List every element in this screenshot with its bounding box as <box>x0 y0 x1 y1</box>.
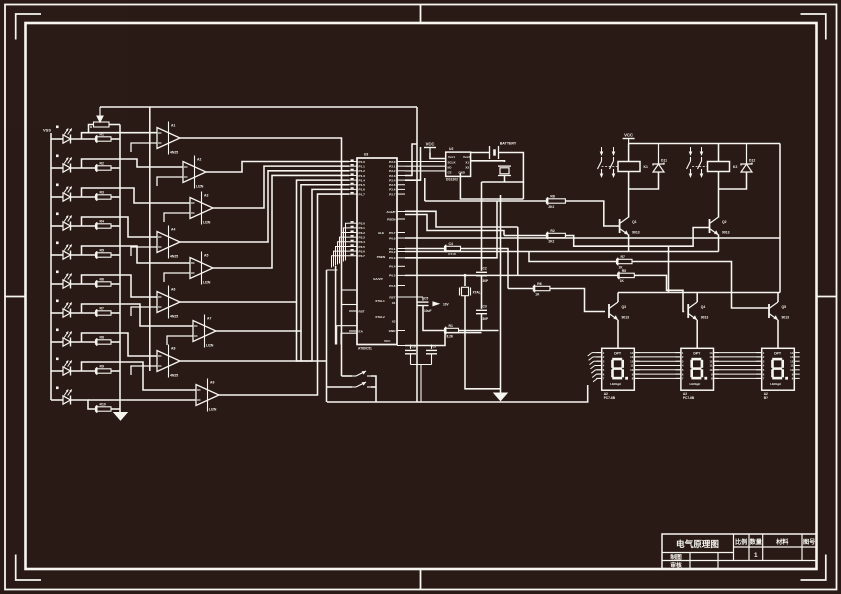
wire row 7 resistor to rail <box>111 312 120 314</box>
label row 1 <box>56 126 59 129</box>
svg-text:P2.6: P2.6 <box>389 188 396 192</box>
wire gnd drop <box>500 195 502 393</box>
svg-text:Vcc2: Vcc2 <box>463 155 470 159</box>
resistor C4 <box>445 242 461 252</box>
centering tick top <box>420 5 422 24</box>
wire gate A3 lower input <box>164 213 190 222</box>
svg-text:X2: X2 <box>392 319 396 323</box>
label row 2 <box>56 155 59 158</box>
svg-text:P3.1: P3.1 <box>359 226 366 230</box>
IC U3 right pin PSEN <box>397 218 405 220</box>
svg-text:LI2N: LI2N <box>206 344 214 348</box>
relay coil K1 <box>618 162 640 172</box>
svg-text:P2.7: P2.7 <box>389 192 396 196</box>
svg-text:P1.1: P1.1 <box>359 164 366 168</box>
corner mark top-right <box>801 14 826 40</box>
wire gate A1 lower input <box>131 143 157 152</box>
IC U3 microcontroller body <box>357 158 397 345</box>
LED D10 <box>63 389 72 404</box>
wire row 10 continue right <box>88 399 120 401</box>
svg-text:R5: R5 <box>100 248 104 252</box>
label row 4 <box>56 213 59 216</box>
svg-text:9013: 9013 <box>701 316 709 320</box>
svg-text:LI2N: LI2N <box>196 185 204 189</box>
wire tap row7 <box>82 304 194 326</box>
wire row 3 resistor to rail <box>111 196 120 198</box>
wire row10 to gate A9 lower input <box>120 399 196 401</box>
svg-text:XTAL1: XTAL1 <box>375 299 385 303</box>
wire tap row3 <box>82 188 191 203</box>
svg-text:数量: 数量 <box>750 538 763 546</box>
wire row 8 resistor to rail <box>111 341 120 343</box>
wire display bus 6 <box>634 373 681 375</box>
svg-text:VCC: VCC <box>426 142 435 147</box>
svg-text:P1.7: P1.7 <box>359 192 366 196</box>
wire row 10 resistor to rail <box>111 408 120 410</box>
wire gate A8 output to MCU <box>180 189 349 361</box>
wire cap common <box>411 364 432 366</box>
wire C4 to R6 riser <box>461 249 509 289</box>
resistor R8 <box>96 335 112 345</box>
wire row 1 to resistor <box>71 138 96 140</box>
LED D6 <box>63 273 72 288</box>
svg-text:VCC: VCC <box>384 339 391 343</box>
power symbol VCC <box>623 133 635 144</box>
corner mark bottom-left <box>16 555 41 581</box>
svg-text:P0.6: P0.6 <box>389 284 396 288</box>
LED D9 <box>63 360 72 375</box>
IC U3 left pins P1 <box>349 161 357 163</box>
wire gate A2 lower input <box>157 177 183 186</box>
title block line v2 <box>748 534 750 561</box>
svg-text:P1.5: P1.5 <box>359 183 366 187</box>
wire R8 feed riser <box>424 178 426 201</box>
wire VCC pin hook <box>405 333 482 346</box>
wire gate A7 output to MCU <box>216 185 349 331</box>
svg-text:P1.3: P1.3 <box>359 174 366 178</box>
wire top feed to resistor ladder <box>100 106 417 108</box>
svg-text:比例: 比例 <box>735 538 747 546</box>
svg-text:C2: C2 <box>483 267 487 271</box>
wire row 5 resistor to rail <box>111 254 120 256</box>
svg-text:9013: 9013 <box>722 231 730 235</box>
svg-text:P0.4: P0.4 <box>389 265 396 269</box>
wire LED row 6 <box>51 283 63 285</box>
wire MCU pin hookup y290 <box>342 289 357 291</box>
wire resistor R0 branch <box>89 125 94 133</box>
wire R2 net <box>504 235 546 237</box>
LED D8 <box>63 331 72 346</box>
wire staircase collector <box>327 269 338 271</box>
svg-text:P3.2: P3.2 <box>359 231 366 235</box>
resistor R2 <box>546 229 565 243</box>
LED D5 <box>63 244 72 259</box>
svg-text:制图: 制图 <box>670 553 682 561</box>
switch S2 <box>352 382 371 387</box>
svg-text:审核: 审核 <box>670 561 682 569</box>
wire emitter rail <box>405 251 719 253</box>
svg-text:VCC: VCC <box>624 133 633 138</box>
svg-text:10V: 10V <box>443 303 450 307</box>
wire tap row2 <box>82 159 184 168</box>
resistor R7 <box>96 306 112 316</box>
wire battery riser <box>460 173 523 199</box>
wire R8 net <box>425 200 547 202</box>
svg-text:D11: D11 <box>661 159 667 163</box>
svg-text:A5: A5 <box>204 254 208 258</box>
wire VCC rail drop right <box>779 144 781 293</box>
svg-text:GND: GND <box>389 329 397 333</box>
svg-text:BATTERY: BATTERY <box>500 142 517 146</box>
svg-text:R6: R6 <box>100 277 104 281</box>
crystal Y2 <box>498 166 511 175</box>
wire R7 to Q5 base <box>632 262 769 309</box>
wire display bus 1 <box>634 352 681 354</box>
wire row 6 to resistor <box>71 283 96 285</box>
svg-text:C3: C3 <box>483 305 487 309</box>
ground <box>114 413 127 421</box>
wire RST pin net <box>405 296 423 298</box>
svg-text:LEDigit: LEDigit <box>610 382 621 386</box>
svg-text:PC7-6B: PC7-6B <box>604 396 616 400</box>
svg-text:GND: GND <box>458 171 466 175</box>
wire C3 lower <box>481 314 483 331</box>
svg-text:PC7-6B: PC7-6B <box>683 396 695 400</box>
wire gate A6 lower input <box>131 307 157 316</box>
op-amp buffer A5 <box>190 252 213 285</box>
svg-text:A6: A6 <box>171 288 175 292</box>
wire cap branch vertical <box>481 182 483 271</box>
relay contact <box>598 147 604 178</box>
crystal Y1 <box>460 287 481 295</box>
wire R0 to rail <box>109 124 120 126</box>
svg-text:Q5: Q5 <box>782 305 787 309</box>
LED D2 <box>63 157 72 172</box>
wire gate A4 output to MCU <box>180 171 349 242</box>
wire R8 to Q1 base <box>565 201 619 226</box>
svg-text:R2: R2 <box>550 229 554 233</box>
power symbol VCC <box>424 142 436 153</box>
crystal Y1 branch <box>464 275 466 286</box>
svg-text:CE: CE <box>448 171 452 175</box>
wire DS1302 X1 to crystal <box>471 161 505 162</box>
resistor R6 <box>533 282 550 296</box>
wire row 4 to resistor <box>71 225 96 227</box>
wire C2 lower <box>481 276 483 309</box>
op-amp buffer A2 <box>183 156 206 189</box>
svg-text:Q3: Q3 <box>622 305 627 309</box>
svg-text:A9: A9 <box>210 381 214 385</box>
svg-text:4N25: 4N25 <box>170 151 178 155</box>
svg-text:DPY: DPY <box>614 351 622 355</box>
wire Q5 emitter to display <box>777 320 779 348</box>
wire LED row 1 <box>51 138 63 140</box>
title block line h3 <box>662 560 817 562</box>
svg-text:B?: B? <box>764 396 768 400</box>
transistor Q5 <box>769 302 789 320</box>
centering tick right <box>817 296 837 298</box>
op-amp buffer A9 <box>196 379 219 412</box>
wire XTAL1 cap <box>410 345 412 349</box>
svg-text:2K2: 2K2 <box>548 239 554 243</box>
svg-text:P2.4: P2.4 <box>389 178 396 182</box>
wire ground bus bottom <box>327 385 588 402</box>
svg-text:8.2K: 8.2K <box>447 334 454 338</box>
wire MCU pin hookup y333 <box>341 333 357 344</box>
wire Q3 emitter to display <box>617 320 619 348</box>
relay K2 link dashes <box>692 166 708 168</box>
svg-text:P3.6: P3.6 <box>359 249 366 253</box>
resistor R6 <box>96 277 112 287</box>
wire display bus 5 <box>634 369 681 371</box>
wire fan drop join <box>297 302 328 361</box>
svg-text:1K: 1K <box>620 279 625 283</box>
svg-text:I/O: I/O <box>448 166 453 170</box>
wire XTAL2 cap <box>431 345 433 349</box>
resistor R7 <box>617 255 633 269</box>
wire relay VCC rail <box>629 143 780 145</box>
resistor R0 top tap <box>94 122 110 127</box>
svg-text:D12: D12 <box>749 159 755 163</box>
diode D12 <box>741 144 755 174</box>
svg-text:CY-R: CY-R <box>448 252 456 256</box>
IC U3 left pin RST <box>349 310 357 312</box>
wire D12 to coil bottom <box>719 172 747 189</box>
wire LED row 2 <box>51 167 63 169</box>
wire cap common drop <box>420 365 422 403</box>
op-amp buffer A1 <box>157 122 180 155</box>
diode D11 <box>653 144 667 174</box>
resistor R10 <box>96 402 112 412</box>
wire DS1302 CE to MCU <box>405 170 446 172</box>
wire display bus 7 <box>634 377 681 379</box>
svg-text:Q2: Q2 <box>722 220 727 224</box>
svg-text:P1.4: P1.4 <box>359 178 366 182</box>
LED D1 <box>63 128 72 143</box>
svg-text:30P: 30P <box>483 317 490 321</box>
wire R5 to Q4 base <box>634 275 684 311</box>
svg-text:RST: RST <box>389 295 395 299</box>
resistor R5 <box>618 269 635 283</box>
wire K1 region drop <box>668 246 670 292</box>
wire MCU pin hookup y325 <box>337 326 357 345</box>
7-segment display DPY <box>756 348 800 400</box>
svg-text:A8: A8 <box>171 347 175 351</box>
capacitor C7 <box>426 345 437 354</box>
svg-text:DS1302: DS1302 <box>446 178 458 182</box>
svg-text:P3.5: P3.5 <box>359 245 366 249</box>
op-amp buffer A8 <box>157 345 180 378</box>
svg-text:R2: R2 <box>100 161 104 165</box>
wire row 3 to resistor <box>71 196 96 198</box>
svg-text:RST: RST <box>359 309 365 313</box>
wire gate A6 output to MCU <box>180 180 349 302</box>
wire LED row 7 <box>51 312 63 314</box>
switch S1 <box>352 371 371 376</box>
wire gate A4 lower input <box>131 247 157 256</box>
svg-text:A3: A3 <box>204 194 208 198</box>
svg-text:ALE: ALE <box>378 231 384 235</box>
wire net C4 <box>405 248 445 250</box>
svg-text:P3.4: P3.4 <box>359 240 366 244</box>
title block line v4 <box>801 534 803 561</box>
svg-text:X1: X1 <box>392 301 396 305</box>
svg-text:P3.0: P3.0 <box>359 222 366 226</box>
wire K1 coil top <box>628 144 630 162</box>
svg-text:2K2: 2K2 <box>548 205 554 209</box>
wire row 10 jog <box>71 400 96 409</box>
wire D11 to coil bottom <box>629 172 659 189</box>
LED D3 <box>63 186 72 201</box>
wire EA vertical <box>416 107 418 402</box>
op-amp buffer A4 <box>157 226 180 259</box>
relay contact <box>610 147 616 178</box>
svg-text:SCLK: SCLK <box>448 161 457 165</box>
wire MCU pin hookup y304 <box>342 304 357 306</box>
capacitor C2 <box>476 267 489 284</box>
wire battery drop extend <box>522 182 524 199</box>
svg-text:R3: R3 <box>100 190 104 194</box>
wire P3 staircase to bottom <box>346 223 350 260</box>
wire reset rail <box>342 375 353 377</box>
resistor R1 <box>96 132 112 142</box>
svg-text:P0.3: P0.3 <box>389 256 396 260</box>
svg-text:C5: C5 <box>424 296 428 300</box>
wire row 6 resistor to rail <box>111 283 120 285</box>
wire tap row9 <box>82 362 197 390</box>
svg-text:XTAL2: XTAL2 <box>375 315 385 319</box>
IC U3 right pin RST <box>397 296 405 298</box>
power arrow into ladder <box>99 107 101 117</box>
wire mid column rail <box>149 107 151 371</box>
svg-text:PSEN: PSEN <box>377 255 386 259</box>
corner mark bottom-right <box>801 555 826 581</box>
wire tap row5 <box>82 246 191 263</box>
label row 3 <box>56 184 59 187</box>
resistor R8 <box>546 194 565 208</box>
wire ALE to DS1302 area <box>405 144 417 176</box>
svg-text:P1.0: P1.0 <box>359 160 366 164</box>
wire LED row 10 <box>51 399 63 401</box>
wire tap row1 to gate U1 input <box>82 133 158 139</box>
svg-text:R5: R5 <box>622 269 626 273</box>
title block outline <box>662 534 817 569</box>
svg-text:P0.0: P0.0 <box>389 236 396 240</box>
svg-text:1: 1 <box>754 552 758 559</box>
wire K2 coil to Q2 <box>718 172 720 218</box>
svg-text:R9: R9 <box>100 364 104 368</box>
resistor R1 <box>445 324 459 338</box>
label row 6 <box>56 271 59 274</box>
label row 9 <box>56 358 59 361</box>
svg-text:A7: A7 <box>207 317 211 321</box>
svg-text:A4: A4 <box>171 228 175 232</box>
wire gate A2 output to MCU <box>206 162 349 173</box>
centering tick bottom <box>420 569 422 590</box>
svg-text:9013: 9013 <box>782 316 790 320</box>
wire gate A3 output to MCU <box>213 166 349 208</box>
wire C7 down <box>431 354 433 365</box>
svg-text:LEDigit: LEDigit <box>689 382 700 386</box>
svg-text:LI2N: LI2N <box>203 221 211 225</box>
op-amp buffer A6 <box>157 286 180 319</box>
svg-text:30P: 30P <box>483 279 490 283</box>
wire Q4 collector <box>696 293 698 303</box>
wire Q1 emitter <box>628 235 630 252</box>
svg-text:AT89C51: AT89C51 <box>358 347 372 351</box>
wire tap row4 <box>82 217 158 237</box>
wire DS1302 to battery <box>471 152 490 154</box>
resistor R2 <box>96 161 112 171</box>
capacitor C5 <box>418 296 432 313</box>
svg-text:10uF: 10uF <box>424 309 431 313</box>
resistor R9 <box>96 364 112 374</box>
label row 7 <box>56 300 59 303</box>
title block line v6 <box>717 553 719 569</box>
svg-text:DPY: DPY <box>774 351 782 355</box>
wire switch S2 out <box>371 386 376 388</box>
wire Q2 emitter <box>718 235 720 252</box>
wire left supply rail <box>50 133 52 400</box>
wire R7 net <box>529 252 617 262</box>
wire switch S1 out <box>371 376 376 402</box>
wire PSEN jog down <box>405 215 504 236</box>
svg-text:9013: 9013 <box>632 231 640 235</box>
wire P0.3 riser <box>405 201 497 258</box>
svg-text:Vcc1: Vcc1 <box>448 155 455 159</box>
wire row 7 to resistor <box>71 312 96 314</box>
wire gate A1 output <box>180 138 342 376</box>
wire R2 to Q2 base <box>565 228 709 247</box>
svg-text:a: a <box>90 125 92 129</box>
wire K1 coil to Q1 <box>628 172 630 218</box>
relay contact <box>687 147 693 178</box>
svg-text:C6: C6 <box>412 345 416 349</box>
transistor Q4 <box>688 302 708 320</box>
svg-text:R8: R8 <box>550 194 554 198</box>
IC U3 right pins P2 labels <box>397 161 405 163</box>
svg-text:EA: EA <box>359 329 364 333</box>
label row 5 <box>56 242 59 245</box>
wire R5 feed <box>517 227 519 275</box>
svg-text:图号: 图号 <box>803 538 815 546</box>
resistor R5 <box>96 248 112 258</box>
svg-text:P3.3: P3.3 <box>359 235 366 239</box>
relay coil K2 <box>708 162 730 172</box>
reset polarity arrow <box>433 302 439 306</box>
wire P0.0 net <box>405 237 780 239</box>
wire row 8 to resistor <box>71 341 96 343</box>
svg-text:R7: R7 <box>100 306 104 310</box>
IC U3 right pin VCC <box>397 345 405 347</box>
wire row 2 to resistor <box>71 167 96 169</box>
wire display bus 4 <box>634 365 681 367</box>
battery B1 <box>490 146 499 159</box>
title block line v5 <box>689 553 691 569</box>
wire gate A9 output to MCU <box>219 194 349 395</box>
svg-text:K1: K1 <box>644 165 648 169</box>
svg-text:A2: A2 <box>197 158 201 162</box>
wire R6 net <box>508 288 533 290</box>
wire row 9 resistor to rail <box>111 370 120 372</box>
wire xtal net <box>405 274 518 276</box>
svg-text:Q1: Q1 <box>632 220 637 224</box>
wire gate A5 output to MCU <box>213 175 349 268</box>
wire LED row 8 <box>51 341 63 343</box>
svg-text:P0.5: P0.5 <box>389 274 396 278</box>
svg-text:P1.6: P1.6 <box>359 188 366 192</box>
LED D4 <box>63 215 72 230</box>
